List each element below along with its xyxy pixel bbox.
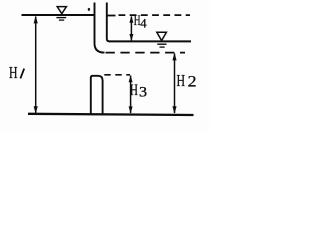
label H1 subscript stroke: [20, 69, 24, 79]
H1 dimension line: [35, 17, 37, 114]
left water surface symbol (nabla + hatches): [56, 7, 66, 21]
H1 bottom arrowhead: [34, 106, 38, 114]
svg-text:H: H: [177, 72, 186, 91]
svg-text:2: 2: [188, 72, 197, 90]
label H3: [130, 81, 147, 100]
H3 bottom arrowhead: [129, 106, 133, 113]
svg-text:3: 3: [139, 84, 147, 100]
svg-text:4: 4: [140, 17, 147, 31]
bent tube inner wall: [107, 3, 110, 42]
label H1: [9, 64, 18, 83]
right water surface symbol (nabla + hatches): [157, 32, 167, 47]
H4 bottom arrowhead: [129, 34, 133, 41]
small outlet tube in lower tank: [91, 76, 103, 114]
scan speck: [88, 8, 90, 11]
bent tube outer wall: [95, 3, 105, 53]
upper level solid stub right of tube: [108, 15, 116, 17]
H3 level dashed line: [104, 74, 130, 76]
svg-text:H: H: [9, 64, 18, 83]
label H4: [134, 12, 148, 30]
right water surface line / pipe top wall: [109, 40, 191, 42]
H3 top arrowhead: [129, 75, 133, 82]
H2 top arrowhead: [172, 53, 176, 61]
H2 bottom arrowhead: [172, 106, 176, 114]
H2 dimension line: [174, 54, 176, 114]
label H2: [177, 72, 197, 91]
pipe bottom dashed line: [106, 52, 186, 54]
H3 dimension line: [130, 76, 132, 114]
left tank water surface line: [22, 14, 95, 16]
H4 top arrowhead: [129, 16, 133, 23]
H1 top arrowhead: [34, 16, 38, 24]
svg-text:H: H: [130, 81, 138, 98]
tank bottom line: [28, 114, 194, 115]
upper level dashed line: [119, 14, 191, 16]
H4 dimension line: [130, 17, 132, 41]
